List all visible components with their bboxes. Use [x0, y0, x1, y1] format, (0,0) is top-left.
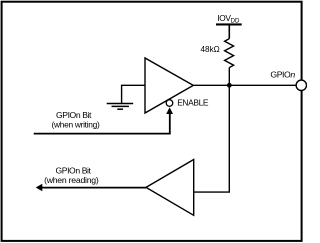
arrow into enable bubble — [166, 107, 173, 114]
buffer U1 output driver triangle — [145, 58, 193, 113]
buffer U2 input buffer triangle — [146, 160, 194, 216]
wire: resistor bottom to node — [228, 68, 230, 86]
wire: GPIOn bit write line — [34, 133, 171, 135]
pad GPIOn circle — [296, 80, 306, 90]
svg-text:48kΩ: 48kΩ — [200, 45, 219, 54]
node junction dot — [227, 83, 232, 88]
wire: node down to input buffer — [194, 85, 230, 192]
svg-text:GPIOn: GPIOn — [270, 70, 295, 80]
enable bubble — [166, 100, 173, 107]
arrowhead of read line — [36, 184, 43, 191]
wire: write line up segment — [169, 113, 171, 134]
wire: GPIOn bit read line — [41, 187, 146, 189]
svg-text:(when reading): (when reading) — [44, 175, 99, 185]
wire: driver output to GPIO pad — [193, 84, 296, 86]
svg-text:(when writing): (when writing) — [52, 120, 100, 130]
ground — [107, 104, 134, 110]
power rail bar — [216, 23, 242, 25]
wire: driver input to ground stem — [122, 85, 145, 103]
svg-text:GPIOn Bit: GPIOn Bit — [56, 110, 92, 120]
svg-text:GPIOn Bit: GPIOn Bit — [55, 165, 91, 175]
svg-text:ENABLE: ENABLE — [177, 98, 209, 108]
resistor 48k zigzag — [225, 39, 234, 68]
wire: power bar to resistor top — [228, 26, 230, 39]
